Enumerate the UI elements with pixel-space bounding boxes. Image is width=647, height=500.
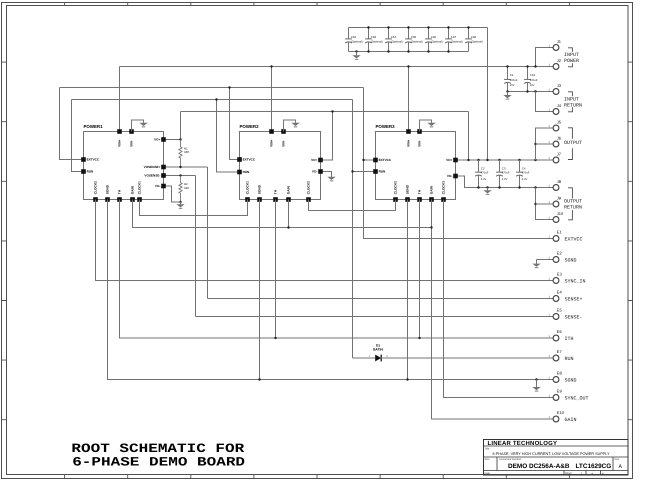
svg-text:RUN: RUN [87, 170, 94, 174]
svg-text:C67: C67 [451, 35, 457, 39]
wire RUN POWER3 stub [353, 171, 376, 173]
svg-text:VO-: VO- [447, 174, 453, 178]
svg-text:E8: E8 [557, 371, 563, 376]
junction [467, 159, 469, 161]
svg-text:RETURN: RETURN [564, 102, 582, 108]
pin VO- of POWER3 [453, 174, 458, 179]
svg-text:RUN: RUN [565, 356, 574, 362]
junction [179, 201, 181, 203]
svg-text:VIN-: VIN- [130, 140, 134, 146]
ground (POWER1 VO-) [176, 204, 184, 208]
wire RUN to POWER2 [217, 100, 240, 173]
svg-text:TH: TH [118, 189, 122, 194]
wire D1 anode side [353, 357, 376, 359]
wire ground stub [536, 380, 538, 388]
pin CLOCK2 of POWER1 [93, 197, 98, 202]
svg-text:E9: E9 [557, 389, 563, 394]
svg-text:RUN: RUN [243, 170, 250, 174]
svg-text:ROOT SCHEMATIC FOR: ROOT SCHEMATIC FOR [71, 442, 244, 456]
svg-text:6.3V: 6.3V [522, 178, 528, 181]
svg-text:C62: C62 [351, 35, 357, 39]
svg-text:C61: C61 [530, 73, 536, 77]
svg-text:SGND: SGND [258, 184, 262, 194]
junction [287, 226, 289, 228]
svg-text:(Optional): (Optional) [471, 41, 483, 44]
pin GAIN of POWER1 [130, 197, 135, 202]
wire E2 SGND stub [537, 259, 554, 261]
wire to J10 [536, 188, 554, 220]
capacitor C62 [345, 28, 352, 52]
wire ground stub [536, 260, 538, 264]
svg-text:6-PHASE, VERY HIGH CURRENT, LO: 6-PHASE, VERY HIGH CURRENT, LOW VOLTAGE … [493, 452, 611, 456]
svg-text:C64: C64 [391, 35, 397, 39]
svg-text:Title: Title [485, 448, 490, 451]
junction [534, 90, 536, 92]
svg-text:470uF: 470uF [522, 172, 530, 175]
wire POWER3 SGND drop [407, 200, 409, 380]
pin VIN+ of POWER2 [269, 129, 274, 134]
capacitor C68 [465, 28, 472, 52]
svg-text:TH: TH [418, 189, 422, 194]
wire SYNC_OUT (POWER3 CLOCK3 to E9) [444, 200, 554, 398]
capacitor C2 [475, 160, 482, 188]
pin VOSENSE+ of POWER1 [161, 165, 166, 170]
junction [407, 65, 409, 67]
wire RUN to POWER1 [72, 100, 84, 172]
svg-text:(Optional): (Optional) [431, 41, 443, 44]
wire GAIN bus [133, 200, 432, 228]
wire EXTVCC POWER3 stub [364, 159, 376, 161]
wire POWER2 VO- [321, 172, 332, 177]
junction [430, 226, 432, 228]
junction [407, 50, 409, 52]
wire ground stub [487, 188, 489, 191]
pin RUN of POWER1 [81, 169, 86, 174]
junction [274, 337, 276, 339]
svg-text:EXTVCC: EXTVCC [565, 236, 583, 242]
connector E3 [553, 278, 559, 284]
connector E4 [553, 296, 559, 302]
junction [535, 378, 537, 380]
junction [534, 65, 536, 67]
svg-text:GAIN: GAIN [287, 186, 291, 195]
wire SENSE- to E5 [196, 316, 554, 318]
ground (SGND at E8) [532, 387, 540, 391]
pin VO- of POWER2 [318, 169, 323, 174]
svg-text:E4: E4 [557, 290, 563, 295]
wire POWER2 VO+ riser [321, 112, 333, 161]
svg-text:(Optional): (Optional) [411, 41, 423, 44]
svg-text:VO+: VO+ [311, 158, 317, 162]
junction [367, 50, 369, 52]
junction [351, 170, 353, 172]
svg-text:CLOCK2: CLOCK2 [394, 181, 398, 194]
wire EXTVCC bus [60, 87, 364, 89]
pin VIN- of POWER2 [281, 129, 286, 134]
power block POWER1 [84, 132, 164, 200]
svg-text:POWER2: POWER2 [240, 124, 260, 129]
svg-text:EXTVCC: EXTVCC [87, 158, 100, 162]
junction [179, 138, 181, 140]
capacitor C1 [504, 67, 511, 92]
junction [447, 50, 449, 52]
svg-text:RUN: RUN [379, 170, 386, 174]
svg-text:E7: E7 [557, 349, 563, 354]
capacitor C64 [385, 28, 392, 52]
junction [427, 50, 429, 52]
wire POWER3 GAIN drop to E10 [432, 200, 554, 420]
svg-text:EXTVCC: EXTVCC [379, 158, 392, 162]
resistor R2 [179, 176, 182, 203]
pin VO- of POWER1 [161, 184, 166, 189]
capacitor C63 [365, 28, 372, 52]
svg-text:VO+: VO+ [154, 138, 160, 142]
wire VOSENSE- [164, 175, 196, 177]
capacitor C4 [516, 160, 523, 188]
ground (cap bank) [352, 55, 360, 59]
svg-text:470uF: 470uF [481, 172, 489, 175]
svg-text:SENSE+: SENSE+ [565, 296, 583, 302]
pin VIN- of POWER1 [129, 129, 134, 134]
svg-text:BAT54: BAT54 [373, 348, 383, 352]
capacitor C3 [496, 160, 503, 188]
svg-text:CLOCK2: CLOCK2 [94, 181, 98, 194]
wire VOSENSE+ [164, 166, 208, 168]
junction [179, 166, 181, 168]
pin CLOCK1 of POWER2 [245, 197, 250, 202]
svg-text:C1: C1 [510, 73, 514, 77]
pin GAIN of POWER2 [286, 197, 291, 202]
svg-text:16V: 16V [530, 84, 535, 87]
svg-text:A: A [619, 464, 623, 470]
svg-text:(Optional): (Optional) [371, 41, 383, 44]
svg-text:100: 100 [184, 186, 189, 190]
connector E6 [553, 335, 559, 341]
svg-text:SGND: SGND [565, 257, 577, 263]
junction [518, 159, 520, 161]
wire to J5 [536, 128, 554, 160]
wire POWER1 VO- [164, 186, 181, 202]
connector J9 [553, 201, 559, 207]
pin RUN of POWER3 [373, 169, 378, 174]
power block POWER2 [240, 132, 321, 200]
connector J2 [553, 64, 559, 70]
wire D1 cathode to E7 [381, 357, 553, 359]
junction [534, 159, 536, 161]
svg-text:SGND: SGND [106, 184, 110, 194]
pin SGND of POWER2 [257, 197, 262, 202]
wire cap bank top rail (VOUT) [349, 27, 488, 29]
pin VIN+ of POWER1 [117, 129, 122, 134]
svg-text:TH: TH [274, 189, 278, 194]
svg-text:E3: E3 [557, 272, 563, 277]
ground (POWER3 VIN-) [427, 123, 435, 127]
connector E10 [553, 416, 559, 422]
svg-text:POWER1: POWER1 [84, 124, 104, 129]
wire to J6 [536, 143, 554, 145]
resistor R1 [179, 140, 182, 168]
svg-text:Date: Date [485, 472, 491, 475]
svg-text:E6: E6 [557, 329, 563, 334]
svg-text:VO-: VO- [312, 170, 318, 174]
junction [477, 186, 479, 188]
pin CLOCK3 of POWER3 [441, 197, 446, 202]
svg-text:CLOCK3: CLOCK3 [442, 181, 446, 194]
svg-text:ITH: ITH [565, 336, 574, 342]
pin CLOCK2 of POWER2 [306, 197, 311, 202]
junction [331, 110, 333, 112]
svg-text:CLOCK2: CLOCK2 [307, 181, 311, 194]
svg-text:100: 100 [184, 150, 189, 154]
wire RUN riser to D1 [352, 100, 354, 359]
svg-text:Document Number: Document Number [500, 458, 522, 461]
wire SYNC_IN (POWER1 CLOCK2 to E3) [96, 200, 554, 281]
pin RUN of POWER2 [237, 170, 242, 175]
svg-text:SYNC_IN: SYNC_IN [565, 278, 586, 284]
svg-text:(Optional): (Optional) [351, 41, 363, 44]
pin VIN+ of POWER3 [406, 129, 411, 134]
wire VO+ upper rail [181, 111, 469, 113]
junction [367, 26, 369, 28]
svg-text:100uF: 100uF [510, 79, 518, 82]
connector J1 [553, 45, 559, 51]
pin TH of POWER1 [117, 197, 122, 202]
pin EXTVCC of POWER3 [373, 158, 378, 163]
connector E8 [553, 377, 559, 383]
wire input return rail [508, 91, 554, 93]
wire POWER3 TH drop [419, 200, 421, 339]
wire POWER1 VIN- to ground [132, 120, 144, 132]
svg-text:100uF: 100uF [530, 79, 538, 82]
capacitor C66 [425, 28, 432, 52]
pin VO+ of POWER3 [453, 158, 458, 163]
svg-text:(Optional): (Optional) [451, 41, 463, 44]
svg-text:of: of [591, 473, 593, 476]
wire POWER1 VIN+ riser [119, 67, 121, 132]
wire to J1 [536, 48, 554, 67]
connector J3 [553, 89, 559, 95]
junction [355, 50, 357, 52]
svg-text:LINEAR TECHNOLOGY: LINEAR TECHNOLOGY [488, 440, 558, 447]
wire to J9 [536, 203, 554, 205]
svg-text:VO+: VO+ [446, 158, 452, 162]
wire SENSE- drop [195, 176, 197, 317]
wire POWER2 SGND drop [259, 200, 261, 380]
svg-text:E1: E1 [557, 230, 563, 235]
wire POWER1 VO+ [164, 139, 181, 141]
wire POWER2 TH drop [275, 200, 277, 339]
wire SGND bus to E8 [108, 200, 554, 380]
group bracket OUTPUT [568, 128, 572, 160]
wire EXTVCC to POWER1 [60, 88, 84, 160]
svg-text:POWER3: POWER3 [376, 124, 396, 129]
svg-text:EXTVCC: EXTVCC [243, 158, 256, 162]
svg-text:DEMO DC256A-A&B: DEMO DC256A-A&B [508, 463, 570, 470]
junction [406, 378, 408, 380]
svg-text:OUTPUT: OUTPUT [564, 140, 582, 146]
junction [506, 65, 508, 67]
svg-text:6-PHASE DEMO BOARD: 6-PHASE DEMO BOARD [72, 455, 245, 469]
pin CLOCK1 of POWER1 [137, 197, 142, 202]
junction [506, 90, 508, 92]
junction [407, 26, 409, 28]
svg-text:VO-: VO- [155, 184, 161, 188]
svg-text:6.3V: 6.3V [502, 178, 508, 181]
junction [498, 186, 500, 188]
wire SENSE+ drop [207, 167, 209, 299]
svg-text:GAIN: GAIN [131, 186, 135, 195]
svg-text:SYNC_OUT: SYNC_OUT [565, 395, 589, 401]
svg-text:E5: E5 [557, 308, 563, 313]
junction [477, 159, 479, 161]
wire ground stub [356, 52, 358, 56]
capacitor C61 [524, 67, 531, 92]
pin VOSENSE- of POWER1 [161, 173, 166, 178]
group bracket INPUT POWER [568, 48, 572, 67]
pin TH of POWER2 [273, 197, 278, 202]
svg-text:VIN+: VIN+ [407, 139, 411, 146]
wire to J4 [536, 92, 554, 112]
wire SENSE+ to E4 [208, 298, 554, 300]
junction [418, 337, 420, 339]
connector J5 [553, 125, 559, 131]
pin VO+ of POWER1 [161, 137, 166, 142]
junction [258, 378, 260, 380]
wire CLOCK2 bus POWER2-POWER3 [309, 200, 396, 211]
svg-text:E2: E2 [557, 251, 563, 256]
junction [534, 186, 536, 188]
svg-text:VOSENSE-: VOSENSE- [144, 174, 160, 178]
junction [270, 65, 272, 67]
wire output rail VO+ [456, 159, 554, 161]
wire POWER2 VIN+ riser [271, 67, 273, 132]
wire POWER3 VIN+ riser [408, 67, 410, 132]
junction [447, 26, 449, 28]
svg-text:C65: C65 [411, 35, 417, 39]
pin TH of POWER3 [417, 197, 422, 202]
ground (POWER2 VIN-) [291, 123, 299, 127]
junction [467, 26, 469, 28]
svg-text:Sheet: Sheet [565, 472, 572, 475]
svg-text:VIN+: VIN+ [118, 139, 122, 146]
junction [534, 203, 536, 205]
group bracket OUTPUT RETURN [568, 188, 572, 220]
wire POWER3 VIN- to ground [420, 120, 432, 132]
svg-text:C63: C63 [371, 35, 377, 39]
sheet title text line 1 [71, 442, 244, 456]
wire VO+ rail to output rail [468, 112, 470, 161]
svg-text:LTC1629CG: LTC1629CG [576, 463, 612, 470]
connector E1 [553, 236, 559, 242]
sheet title text line 2 [72, 455, 245, 469]
junction [526, 90, 528, 92]
svg-text:J10: J10 [557, 211, 564, 216]
svg-text:POWER: POWER [564, 58, 579, 64]
connector J10 [553, 217, 559, 223]
junction [498, 159, 500, 161]
svg-text:VIN-: VIN- [282, 140, 286, 146]
wire POWER2 VIN- to ground [284, 120, 296, 132]
ground (POWER1 VIN-) [139, 123, 147, 127]
wire POWER2 GAIN drop [288, 200, 290, 228]
junction [486, 159, 488, 161]
svg-text:C66: C66 [431, 35, 437, 39]
svg-text:SGND: SGND [406, 184, 410, 194]
svg-text:C3: C3 [502, 166, 506, 170]
svg-text:CLOCK1: CLOCK1 [138, 181, 142, 194]
junction [387, 50, 389, 52]
title block [484, 440, 629, 476]
svg-text:Size: Size [485, 458, 491, 461]
ground (input return) [503, 95, 511, 99]
junction [387, 26, 389, 28]
pin SGND of POWER1 [105, 197, 110, 202]
power block POWER3 [376, 132, 456, 200]
wire cap bank bottom rail (GND) [349, 51, 469, 53]
junction [518, 186, 520, 188]
capacitor C65 [405, 28, 412, 52]
svg-text:SGND: SGND [565, 377, 577, 383]
junction [179, 174, 181, 176]
svg-text:GAIN: GAIN [565, 417, 577, 423]
ground (POWER2 VO-) [327, 177, 335, 181]
wire CLOCK1 bus POWER1-POWER2 [140, 200, 248, 216]
connector E9 [553, 395, 559, 401]
junction [534, 143, 536, 145]
pin EXTVCC of POWER2 [237, 157, 242, 162]
svg-text:VOSENSE+: VOSENSE+ [144, 165, 161, 169]
ground (E2) [532, 264, 540, 268]
junction [215, 98, 217, 100]
wire EXTVCC to POWER2 [230, 88, 240, 160]
svg-text:C68: C68 [471, 35, 477, 39]
svg-text:16V: 16V [510, 84, 515, 87]
ground (output return) [483, 190, 491, 194]
svg-text:470uF: 470uF [502, 172, 510, 175]
capacitor C67 [445, 28, 452, 52]
diode D1 BAT54 [375, 355, 381, 362]
connector J6 [553, 141, 559, 147]
pin EXTVCC of POWER1 [81, 157, 86, 162]
junction [427, 26, 429, 28]
wire output return rail [456, 176, 554, 188]
svg-text:GAIN: GAIN [430, 186, 434, 195]
svg-text:C2: C2 [481, 166, 485, 170]
group bracket INPUT RETURN [568, 92, 572, 112]
wire ground stub [507, 92, 509, 96]
pin SGND of POWER3 [405, 197, 410, 202]
wire ITH bus to E6 [120, 200, 554, 339]
wire cap bank to output rail [487, 28, 489, 161]
connector J8 [553, 185, 559, 191]
pin CLOCK2 of POWER3 [393, 197, 398, 202]
connector E7 [553, 355, 559, 361]
svg-text:(Optional): (Optional) [391, 41, 403, 44]
svg-text:C4: C4 [522, 166, 526, 170]
svg-text:6.3V: 6.3V [481, 178, 487, 181]
svg-text:Rev: Rev [615, 458, 620, 461]
junction [526, 65, 528, 67]
connector J4 [553, 109, 559, 115]
svg-text:VIN-: VIN- [418, 140, 422, 146]
junction [228, 86, 230, 88]
svg-text:SENSE-: SENSE- [565, 314, 583, 320]
junction [362, 159, 364, 161]
junction [486, 186, 488, 188]
svg-text:CLOCK1: CLOCK1 [246, 181, 250, 194]
wire RUN bus [72, 99, 353, 101]
connector E5 [553, 314, 559, 320]
